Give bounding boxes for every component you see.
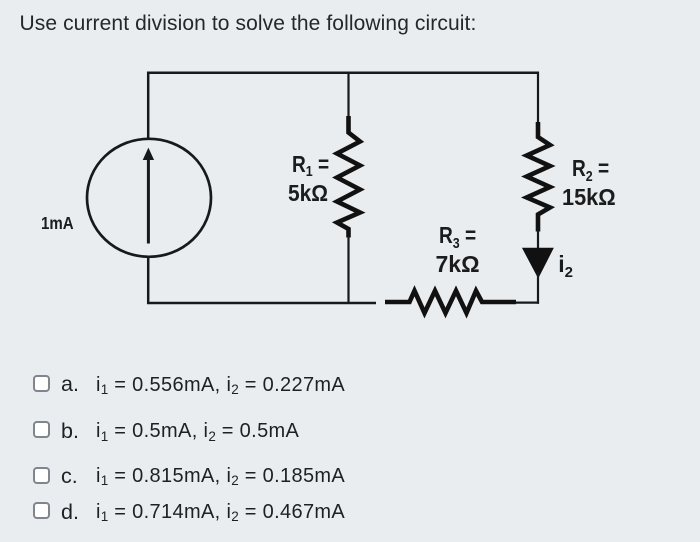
title	[20, 12, 477, 36]
resistor R3	[385, 291, 516, 313]
current source I1 circle	[87, 139, 211, 257]
wire middle branch lower	[347, 236, 349, 304]
wire bottom left	[147, 302, 376, 304]
wire left lower	[147, 256, 150, 304]
wire R2 to arrow	[537, 230, 539, 250]
wire middle branch upper	[347, 72, 349, 119]
option b text	[96, 421, 299, 441]
checkbox b	[33, 421, 50, 438]
resistor R2	[527, 122, 550, 232]
wire top horizontal	[147, 71, 539, 74]
option c letter	[61, 466, 78, 488]
checkbox d	[33, 502, 50, 519]
label R1 ohms	[288, 182, 328, 205]
resistor R1	[337, 116, 360, 238]
option a letter	[61, 374, 79, 396]
option c text	[96, 466, 345, 486]
checkbox a	[33, 375, 50, 392]
option b letter	[61, 421, 79, 443]
option d text	[96, 502, 345, 522]
option d letter	[61, 502, 79, 524]
wire right upper	[537, 72, 539, 125]
current source arrow	[144, 149, 154, 244]
label R3 ohms	[436, 253, 480, 276]
label R2 ohms	[562, 186, 616, 209]
option a text	[96, 375, 345, 395]
label R1 value	[292, 153, 329, 176]
label i2	[558, 253, 573, 276]
label R3 value	[439, 224, 476, 247]
wire below arrow	[537, 272, 539, 304]
wire bottom right jog	[516, 302, 539, 304]
label 1mA	[41, 215, 74, 233]
current arrow i2	[523, 248, 554, 277]
checkbox c	[33, 467, 50, 484]
wire left upper	[147, 72, 150, 140]
label R2 value	[572, 157, 609, 180]
